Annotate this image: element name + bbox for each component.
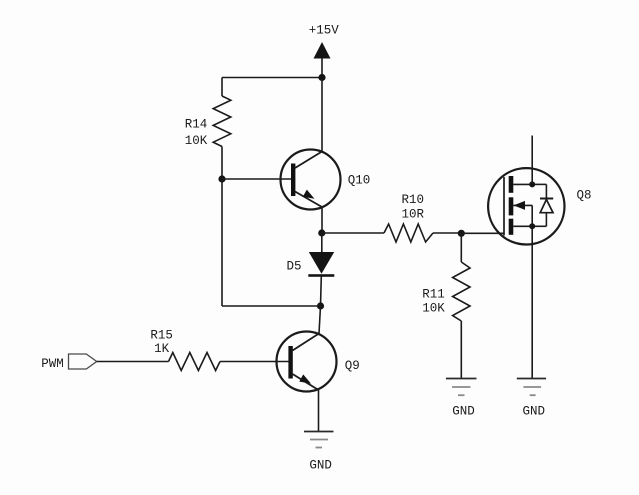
svg-text:PWM: PWM xyxy=(41,357,64,371)
ground GND (R11) xyxy=(446,379,477,396)
junction gate node (R10 / R11 / Q8 gate) xyxy=(458,230,465,237)
wire R11 to ground xyxy=(460,321,462,379)
wire Q8 drain stub xyxy=(531,136,533,185)
label R15 value 1K xyxy=(150,329,173,357)
ground GND (Q8) xyxy=(517,379,546,396)
transistor Q9 xyxy=(277,332,337,392)
wire Q8 source to ground xyxy=(531,226,533,378)
svg-text:Q8: Q8 xyxy=(576,189,591,203)
svg-text:D5: D5 xyxy=(286,260,301,274)
resistor R15 xyxy=(169,353,221,371)
svg-text:Q10: Q10 xyxy=(348,174,371,188)
svg-text:R11: R11 xyxy=(422,288,445,302)
junction node A (Q10 emitter / D5 anode / R10) xyxy=(318,229,325,236)
wire R14 bottom to base node xyxy=(221,147,223,180)
junction +15V node xyxy=(318,74,325,81)
wire Q9 emitter to ground xyxy=(318,390,320,432)
wire node C to left column xyxy=(222,305,321,307)
svg-text:GND: GND xyxy=(309,459,332,473)
svg-text:+15V: +15V xyxy=(309,24,340,38)
svg-text:GND: GND xyxy=(522,405,545,419)
svg-text:10R: 10R xyxy=(402,208,425,222)
svg-text:GND: GND xyxy=(452,405,475,419)
wire R15 to Q9 base xyxy=(220,361,289,363)
wire Q9 collector xyxy=(319,306,321,334)
wire base node down left column xyxy=(221,179,223,306)
junction node C (D5 cathode / Q9 collector) xyxy=(317,302,324,309)
wire PWM to R15 xyxy=(97,361,169,363)
resistor R11 xyxy=(453,262,470,321)
svg-text:10K: 10K xyxy=(422,302,445,316)
junction base node (R14 / Q10 base) xyxy=(218,175,225,182)
label R14 value 10K xyxy=(185,118,208,149)
wire node A to R10 xyxy=(322,232,384,234)
svg-text:R15: R15 xyxy=(150,329,173,343)
wire R10 to gate node xyxy=(433,232,461,234)
wire +15V node to R14 top xyxy=(222,77,322,79)
ground GND (Q9) xyxy=(304,432,334,448)
svg-text:R10: R10 xyxy=(402,193,425,207)
label R11 value 10K xyxy=(422,288,445,316)
resistor R14 xyxy=(213,96,231,147)
wire Q10 emitter to node A xyxy=(321,207,323,233)
wire R11 top lead xyxy=(460,233,462,262)
wire +15V node to Q10 collector xyxy=(321,78,323,152)
svg-text:R14: R14 xyxy=(185,118,208,132)
wire gate node to Q8 gate xyxy=(461,232,504,234)
wire R14 top lead xyxy=(221,78,223,97)
diode D5 xyxy=(308,233,334,306)
transistor Q10 xyxy=(281,150,341,210)
svg-text:Q9: Q9 xyxy=(345,359,360,373)
power symbol +15V xyxy=(314,42,331,78)
svg-text:1K: 1K xyxy=(154,342,170,356)
mosfet Q8 xyxy=(488,168,564,244)
label R10 value 10R xyxy=(402,193,425,222)
wire Q10 base xyxy=(222,178,292,180)
resistor R10 xyxy=(384,224,433,242)
port PWM xyxy=(69,354,97,369)
svg-text:10K: 10K xyxy=(185,134,208,148)
